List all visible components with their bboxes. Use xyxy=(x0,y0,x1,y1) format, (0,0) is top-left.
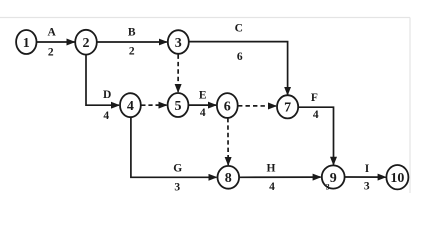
svg-text:6: 6 xyxy=(237,51,243,63)
node 3 xyxy=(168,30,189,54)
svg-text:2: 2 xyxy=(83,36,90,51)
node 10 xyxy=(386,165,408,189)
svg-text:6: 6 xyxy=(224,99,231,114)
svg-text:I: I xyxy=(365,163,370,175)
faint table border vertical xyxy=(409,18,411,194)
svg-text:4: 4 xyxy=(269,181,275,193)
wire dummy 3 to 5 dashed xyxy=(177,55,179,93)
svg-text:C: C xyxy=(235,23,243,35)
svg-text:A: A xyxy=(47,26,56,38)
svg-text:3: 3 xyxy=(174,182,180,193)
svg-text:8: 8 xyxy=(225,171,232,186)
node 5 xyxy=(168,93,189,117)
wire G: node4 down then right to node8 xyxy=(131,117,217,177)
wire H: arrow node8 to node9 xyxy=(240,176,321,178)
svg-text:E: E xyxy=(199,90,207,102)
wire B: arrow node2 to node3 xyxy=(97,41,167,43)
node 8 xyxy=(218,166,240,189)
svg-text:4: 4 xyxy=(313,109,319,121)
wire E: arrow node5 to node6 xyxy=(189,104,216,106)
svg-text:7: 7 xyxy=(284,101,291,116)
wire D: node2 down then right to node4 xyxy=(86,55,119,105)
svg-text:9: 9 xyxy=(330,171,337,186)
svg-text:F: F xyxy=(311,92,318,104)
node 7 xyxy=(277,95,298,118)
svg-text:4: 4 xyxy=(127,99,134,114)
svg-text:5: 5 xyxy=(175,99,182,114)
wire C: arrow node3 to node7 elbow xyxy=(189,42,288,95)
svg-text:H: H xyxy=(267,163,276,175)
svg-text:4: 4 xyxy=(103,110,109,122)
svg-text:2: 2 xyxy=(129,46,135,58)
wire A: arrow node1 to node2 xyxy=(37,41,75,43)
node 9 xyxy=(322,165,345,188)
faint table border horizontal xyxy=(0,17,410,19)
wire I: arrow node9 to node10 xyxy=(345,176,386,178)
node 6 xyxy=(217,93,238,118)
wire dummy 6 to 7 dashed xyxy=(238,105,276,107)
wire F: node7 right then down to node9 xyxy=(298,107,334,165)
node 4 xyxy=(120,93,141,117)
wire dummy 4 to 5 dashed xyxy=(141,104,166,106)
svg-text:4: 4 xyxy=(200,107,206,119)
svg-text:3: 3 xyxy=(364,181,370,193)
node 1 xyxy=(16,30,36,54)
wire dummy 6 to 8 dashed xyxy=(227,118,229,165)
svg-text:G: G xyxy=(173,163,182,175)
svg-text:B: B xyxy=(128,26,136,38)
svg-text:D: D xyxy=(103,89,111,101)
svg-text:2: 2 xyxy=(48,47,54,59)
node 2 xyxy=(75,30,97,55)
svg-text:3: 3 xyxy=(175,36,182,51)
svg-text:10: 10 xyxy=(390,171,404,186)
svg-text:1: 1 xyxy=(23,36,30,51)
svg-text:3: 3 xyxy=(326,183,330,192)
